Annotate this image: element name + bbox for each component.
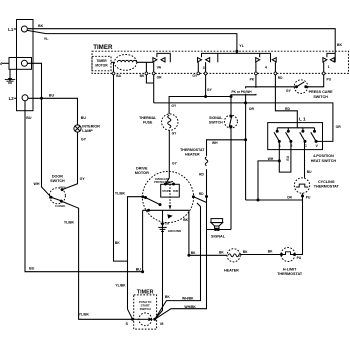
svg-text:VA: VA	[157, 66, 162, 70]
svg-text:THERMOSTAT: THERMOSTAT	[314, 184, 340, 188]
svg-text:1: 1	[328, 65, 330, 69]
svg-text:MOTOR: MOTOR	[95, 63, 108, 67]
svg-text:WH/BK: WH/BK	[182, 297, 194, 301]
svg-text:MOTOR: MOTOR	[135, 171, 149, 175]
svg-text:GY: GY	[172, 132, 178, 136]
svg-text:3: 3	[203, 66, 205, 70]
svg-text:GY: GY	[80, 177, 86, 181]
svg-text:BU: BU	[26, 116, 32, 120]
svg-text:WH/BK: WH/BK	[184, 305, 196, 309]
svg-text:YL/BK: YL/BK	[79, 313, 90, 317]
svg-text:BK: BK	[191, 251, 196, 255]
svg-text:BU: BU	[286, 155, 290, 160]
svg-text:WH: WH	[34, 182, 40, 186]
svg-text:RUN: RUN	[173, 190, 178, 193]
svg-text:YL/BK: YL/BK	[64, 221, 75, 225]
svg-text:THERMOSTAT: THERMOSTAT	[180, 148, 205, 152]
svg-text:BK: BK	[140, 74, 145, 78]
svg-text:LAMP: LAMP	[82, 129, 93, 133]
svg-text:RD: RD	[278, 76, 283, 80]
svg-text:WH: WH	[268, 157, 274, 161]
svg-text:BU: BU	[49, 93, 55, 97]
svg-text:SWITCH: SWITCH	[209, 120, 223, 124]
svg-text:4-POSITION: 4-POSITION	[313, 154, 334, 158]
svg-text:SWITCH: SWITCH	[313, 95, 328, 99]
svg-text:OPEN: OPEN	[59, 187, 66, 189]
svg-text:GY: GY	[171, 104, 177, 108]
svg-text:GY: GY	[286, 89, 292, 93]
svg-text:2: 2	[291, 144, 293, 148]
svg-text:BU: BU	[29, 266, 35, 270]
svg-text:GY: GY	[81, 137, 87, 141]
svg-text:BK: BK	[268, 249, 273, 253]
svg-text:1: 1	[279, 144, 281, 148]
svg-text:PK or PK/WH: PK or PK/WH	[232, 90, 253, 94]
svg-text:BK: BK	[115, 241, 120, 245]
svg-text:DOOR: DOOR	[52, 174, 63, 178]
svg-text:OR: OR	[249, 107, 255, 111]
svg-text:RD: RD	[199, 192, 204, 196]
svg-text:YL: YL	[239, 44, 244, 48]
svg-text:L2: L2	[9, 96, 15, 101]
svg-text:PU: PU	[297, 256, 302, 260]
svg-text:BK: BK	[38, 24, 44, 28]
svg-text:TIMER: TIMER	[93, 44, 113, 51]
svg-text:START: START	[162, 190, 170, 193]
svg-text:RD: RD	[199, 172, 204, 176]
svg-text:HEATER: HEATER	[224, 268, 239, 272]
svg-text:L 1: L 1	[299, 116, 306, 121]
svg-text:BU: BU	[136, 268, 142, 272]
svg-text:INTERIOR: INTERIOR	[82, 125, 100, 129]
svg-text:BA: BA	[116, 74, 121, 78]
svg-text:BU: BU	[307, 170, 312, 174]
svg-text:SWITCH: SWITCH	[140, 307, 151, 311]
svg-text:BK: BK	[183, 218, 188, 222]
svg-text:SWITCH: SWITCH	[50, 179, 65, 183]
svg-text:HEAT SWITCH: HEAT SWITCH	[311, 159, 337, 163]
svg-text:M: M	[160, 322, 163, 326]
svg-text:BK: BK	[165, 295, 170, 299]
svg-text:PU: PU	[306, 196, 311, 200]
svg-text:H-LIMIT: H-LIMIT	[283, 268, 297, 272]
svg-text:CLOSED: CLOSED	[55, 205, 65, 208]
svg-text:PK: PK	[250, 78, 255, 82]
svg-text:BU: BU	[81, 116, 87, 120]
svg-text:OR: OR	[157, 76, 163, 80]
svg-text:THERMAL: THERMAL	[139, 116, 157, 120]
svg-text:DRIVE: DRIVE	[136, 166, 148, 170]
svg-text:THERMOSTAT: THERMOSTAT	[277, 272, 303, 276]
svg-text:PROTECTOR: PROTECTOR	[154, 181, 170, 184]
svg-text:GR: GR	[165, 222, 169, 226]
svg-text:L1: L1	[8, 27, 14, 32]
svg-text:YL: YL	[44, 37, 49, 41]
svg-text:YL/BK: YL/BK	[115, 284, 126, 288]
svg-text:OR: OR	[336, 125, 342, 129]
svg-text:BK: BK	[219, 250, 224, 254]
svg-text:GROUND: GROUND	[168, 229, 182, 233]
svg-text:WH: WH	[212, 141, 218, 145]
svg-text:BK: BK	[337, 43, 343, 47]
svg-text:TIMER: TIMER	[137, 289, 154, 295]
svg-text:SIGNAL: SIGNAL	[211, 235, 226, 239]
svg-text:FUSE: FUSE	[143, 121, 153, 125]
svg-text:YL/BK: YL/BK	[115, 192, 126, 196]
svg-text:GY: GY	[207, 88, 213, 92]
svg-text:PU: PU	[327, 77, 332, 81]
svg-text:GY: GY	[192, 74, 198, 78]
svg-text:HEATER: HEATER	[185, 152, 200, 156]
svg-text:SIGNAL: SIGNAL	[209, 116, 223, 120]
svg-text:N: N	[0, 61, 2, 66]
svg-text:S: S	[126, 322, 129, 326]
svg-text:BK: BK	[243, 250, 248, 254]
svg-text:OR: OR	[287, 196, 293, 200]
svg-text:RD: RD	[285, 107, 290, 111]
svg-text:CYCLING: CYCLING	[318, 180, 335, 184]
svg-text:PRESS CARE: PRESS CARE	[309, 90, 334, 94]
svg-text:GY: GY	[172, 162, 178, 166]
